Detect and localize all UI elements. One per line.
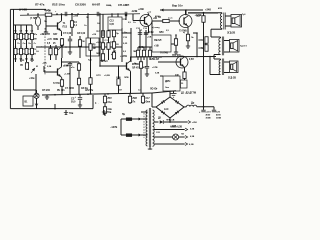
svg-text:С8 0,02: С8 0,02 xyxy=(77,33,86,35)
svg-text:+СЛВ: +СЛВ xyxy=(152,67,158,69)
svg-text:0,2В: 0,2В xyxy=(47,66,52,68)
svg-text:4000: 4000 xyxy=(206,114,212,117)
svg-text:Л1Е-10та: Л1Е-10та xyxy=(52,3,65,7)
svg-text:(У-50В: (У-50В xyxy=(19,8,27,12)
svg-text:+1,5В: +1,5В xyxy=(64,74,70,76)
svg-text:Вар 10v: Вар 10v xyxy=(172,4,183,8)
svg-text:+248: +248 xyxy=(205,8,211,12)
svg-text:АП2 Пк: АП2 Пк xyxy=(85,89,94,92)
svg-text:СТ 4200: СТ 4200 xyxy=(65,87,75,90)
svg-text:ЛМВ: ЛМВ xyxy=(53,39,58,41)
svg-text:СЛВ: СЛВ xyxy=(199,48,204,50)
svg-text:Л8Т: Л8Т xyxy=(108,98,113,100)
svg-text:+0,2В: +0,2В xyxy=(104,75,110,77)
svg-text:(Т ЛЛ): (Т ЛЛ) xyxy=(30,18,37,20)
svg-text:+4,2В: +4,2В xyxy=(63,65,69,68)
svg-text:защ.: защ. xyxy=(106,3,112,7)
svg-text:РН 47к: РН 47к xyxy=(57,89,65,92)
svg-text:Фил: Фил xyxy=(146,101,151,104)
svg-text:СЛВ-СЛ: СЛВ-СЛ xyxy=(150,59,159,61)
svg-text:Др: Др xyxy=(191,102,195,105)
svg-text:СЛ4: СЛ4 xyxy=(199,39,204,42)
svg-text:ЛЛВ: ЛЛВ xyxy=(124,77,129,79)
svg-text:+СТ: +СТ xyxy=(147,12,152,14)
svg-text:+10в: +10в xyxy=(29,78,35,80)
svg-text:СЛ: СЛ xyxy=(197,16,201,18)
svg-text:С9в: С9в xyxy=(108,109,113,111)
svg-text:+250: +250 xyxy=(192,122,198,124)
svg-text:4МВ: 4МВ xyxy=(172,125,177,128)
svg-text:Д1 -Д3 ДГ7Ж: Д1 -Д3 ДГ7Ж xyxy=(181,91,197,94)
svg-text:МП40А: МП40А xyxy=(132,63,140,66)
svg-text:СЛВ: СЛВ xyxy=(116,77,121,79)
svg-text:+127В: +127В xyxy=(120,56,127,58)
svg-text:ал.в: ал.в xyxy=(168,18,173,20)
svg-text:1М: 1М xyxy=(34,39,37,41)
svg-text:СЧ: СЧ xyxy=(105,40,108,42)
svg-text:СЛЛ: СЛЛ xyxy=(122,19,127,21)
svg-text:П13: П13 xyxy=(63,26,68,29)
svg-text:Ст: Ст xyxy=(34,43,37,45)
svg-text:+СВ: +СВ xyxy=(92,34,97,36)
svg-text:~127В: ~127В xyxy=(110,126,118,129)
svg-text:+СВ: +СВ xyxy=(147,37,152,39)
svg-text:б): б) xyxy=(183,32,185,34)
svg-text:ЛВ: ЛВ xyxy=(133,51,136,53)
svg-text:ЛВТ: ЛВТ xyxy=(100,61,105,63)
svg-text:СЛЛ: СЛЛ xyxy=(96,75,101,77)
svg-text:0,2В: 0,2В xyxy=(155,73,160,75)
svg-text:+3В: +3В xyxy=(40,34,45,36)
svg-text:ЛЛ 4Л: ЛЛ 4Л xyxy=(132,67,139,70)
svg-text:а) вход: а) вход xyxy=(152,27,160,29)
svg-text:М: М xyxy=(36,66,38,68)
svg-text:ЛАТ: ЛАТ xyxy=(53,33,58,36)
svg-text:~0,5: ~0,5 xyxy=(42,63,47,65)
svg-text:+24В: +24В xyxy=(138,8,144,11)
svg-text:300В: 300В xyxy=(216,118,222,120)
svg-text:ЛВ-5Л: ЛВ-5Л xyxy=(154,39,162,42)
svg-text:+0,25: +0,25 xyxy=(96,42,102,44)
svg-text:4200: 4200 xyxy=(155,15,161,18)
svg-text:ЛЛЗ: ЛЛЗ xyxy=(159,32,164,34)
svg-text:1ГД-2В: 1ГД-2В xyxy=(228,78,236,80)
svg-text:300В: 300В xyxy=(206,118,212,120)
svg-text:50,0: 50,0 xyxy=(71,102,76,104)
svg-text:Гр2-Г3: Гр2-Г3 xyxy=(240,46,247,48)
svg-text:П1в: П1в xyxy=(107,112,112,114)
svg-text:СП-АМП: СП-АМП xyxy=(118,3,129,7)
svg-text:-124В: -124В xyxy=(131,10,138,13)
svg-text:С7 0,02: С7 0,02 xyxy=(63,33,72,35)
svg-text:Экв: Экв xyxy=(165,87,170,89)
svg-text:4000: 4000 xyxy=(216,114,222,117)
svg-text:ЛВУ: ЛВУ xyxy=(133,98,138,100)
svg-text:Т2 П14: Т2 П14 xyxy=(53,82,61,85)
svg-text:6,3В: 6,3В xyxy=(189,144,194,146)
svg-text:С8 2200: С8 2200 xyxy=(75,3,86,7)
svg-text:ДМЧ: ДМЧ xyxy=(165,81,171,83)
svg-text:+СЛ: +СЛ xyxy=(47,39,52,41)
svg-text:Т6 П4Б: Т6 П4Б xyxy=(160,52,168,55)
svg-text:+С19: +С19 xyxy=(206,112,212,114)
svg-text:ЛЛВ+СВ: ЛЛВ+СВ xyxy=(166,120,175,122)
svg-text:Л7-47а: Л7-47а xyxy=(35,3,45,7)
svg-text:С1В: С1В xyxy=(149,32,154,34)
svg-text:6Н 6П: 6Н 6П xyxy=(92,3,100,7)
svg-text:1М: 1М xyxy=(93,48,96,50)
svg-text:0,5Л: 0,5Л xyxy=(189,59,194,61)
svg-text:П1в: П1в xyxy=(69,113,74,115)
svg-text:6,3В: 6,3В xyxy=(190,129,195,131)
svg-text:ЗГД-2В: ЗГД-2В xyxy=(227,33,235,35)
svg-text:С1в: С1в xyxy=(108,102,113,104)
svg-text:Лт: Лт xyxy=(17,43,20,45)
svg-text:6,3В: 6,3В xyxy=(190,136,195,138)
svg-text:4 →: 4 → xyxy=(95,102,99,105)
svg-text:ГУ 2й: ГУ 2й xyxy=(45,10,51,13)
svg-text:ЛО Юг: ЛО Юг xyxy=(150,88,157,90)
svg-text:+20В: +20В xyxy=(73,16,79,18)
svg-text:4ЛЗ: 4ЛЗ xyxy=(218,7,223,10)
svg-text:0,05: 0,05 xyxy=(110,24,115,26)
svg-text:30: 30 xyxy=(181,83,183,85)
svg-text:СП 200: СП 200 xyxy=(42,90,51,92)
